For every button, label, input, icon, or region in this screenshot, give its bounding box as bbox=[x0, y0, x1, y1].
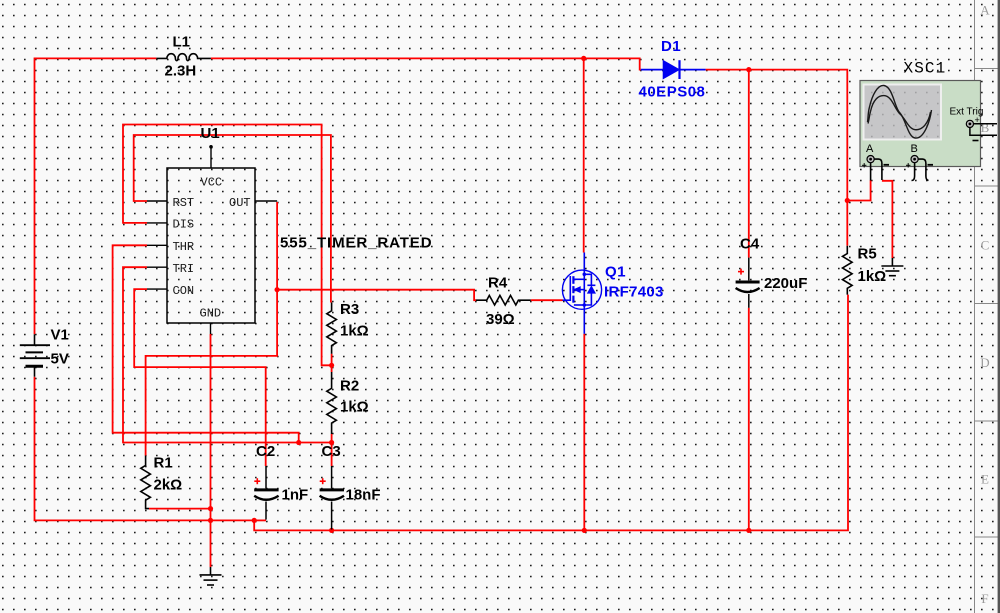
ground (right, scope A-) bbox=[881, 258, 903, 276]
svg-text:B: B bbox=[911, 143, 918, 155]
junction R3/R2 (DIS) bbox=[329, 363, 334, 368]
junction C4 top / output rail bbox=[746, 67, 751, 72]
svg-text:220uF: 220uF bbox=[764, 275, 807, 292]
wire R4 right to Q1 gate bbox=[531, 299, 563, 301]
pin THR stub bbox=[147, 244, 167, 246]
svg-text:D: D bbox=[980, 355, 989, 370]
svg-text:R1: R1 bbox=[154, 455, 173, 472]
svg-text:2kΩ: 2kΩ bbox=[154, 477, 183, 494]
Q1 body diode branch bbox=[584, 274, 591, 285]
polarity + (C2) bbox=[254, 478, 260, 484]
svg-text:DIS: DIS bbox=[173, 218, 195, 232]
svg-text:R4: R4 bbox=[488, 275, 508, 292]
pin GND stub bbox=[210, 323, 212, 334]
svg-text:D1: D1 bbox=[661, 38, 681, 55]
scope waveform bbox=[868, 85, 932, 138]
wire battery minus down to ground rail bbox=[35, 377, 255, 521]
diode D1 bbox=[641, 60, 706, 79]
junction Q1 drain / top rail bbox=[581, 56, 586, 61]
junction Q1 source / ground rail bbox=[582, 528, 587, 533]
wire C2 bottom jog bbox=[254, 519, 266, 521]
wire Q1 source to ground rail bbox=[583, 334, 585, 531]
Q1 body circle bbox=[562, 270, 601, 309]
svg-text:R5: R5 bbox=[858, 246, 877, 263]
terminal B plus mark bbox=[906, 163, 910, 167]
svg-text:A: A bbox=[980, 3, 990, 18]
scope lead B- hook bbox=[918, 159, 928, 180]
svg-text:F: F bbox=[981, 591, 988, 606]
inductor L1 bbox=[156, 54, 211, 61]
svg-text:L1: L1 bbox=[173, 34, 191, 51]
wire output node to scope channel A+ bbox=[847, 180, 870, 200]
svg-text:1kΩ: 1kΩ bbox=[858, 268, 887, 285]
Ext Trig terminal bbox=[966, 120, 973, 127]
svg-text:B: B bbox=[981, 120, 990, 135]
wire 555 GND pin down to ground symbol, R1 junction bbox=[210, 334, 212, 567]
junction scope A+ tap bbox=[845, 198, 850, 203]
wire R3 bottom red to junction bbox=[331, 354, 333, 366]
junction OUT node bbox=[275, 287, 280, 292]
resistor R1 bbox=[141, 456, 151, 509]
wire CON left loop to C2 top bbox=[134, 289, 266, 466]
capacitor C3 bbox=[320, 466, 344, 530]
wire R2 top red from junction bbox=[331, 365, 333, 372]
svg-text:IRF7403: IRF7403 bbox=[604, 284, 664, 301]
svg-text:C3: C3 bbox=[322, 443, 341, 460]
junction 555 GND / ground rail bbox=[208, 518, 213, 523]
terminal A plus mark bbox=[862, 163, 866, 167]
terminal B minus mark bbox=[928, 164, 934, 166]
wire C3 top red bbox=[331, 443, 333, 467]
svg-text:GND: GND bbox=[200, 307, 222, 321]
svg-text:OUT: OUT bbox=[229, 196, 251, 210]
svg-text:U1: U1 bbox=[201, 125, 220, 142]
junction R1 bottom / 555 GND bbox=[208, 506, 213, 511]
wire D1 cathode to output node, to C4 and R5 bbox=[706, 70, 848, 246]
pin VCC stub bbox=[210, 147, 212, 168]
svg-text:THR: THR bbox=[173, 240, 195, 254]
terminal A bbox=[867, 156, 874, 163]
junction C4 bottom / ground rail bbox=[746, 528, 751, 533]
pin RST stub bbox=[147, 200, 167, 202]
svg-text:1kΩ: 1kΩ bbox=[340, 323, 369, 340]
wire OUT node down and left to R1 top bbox=[146, 290, 278, 456]
svg-text:1nF: 1nF bbox=[282, 487, 309, 504]
svg-text:40EPS08: 40EPS08 bbox=[639, 84, 706, 101]
svg-text:C: C bbox=[981, 237, 990, 252]
svg-text:Q1: Q1 bbox=[605, 264, 626, 281]
svg-text:A: A bbox=[866, 143, 874, 155]
Q1 internal connection dots bbox=[583, 273, 587, 277]
wire top rail left (V1+ to L1) bbox=[35, 58, 157, 334]
svg-text:5V: 5V bbox=[51, 351, 69, 368]
pin TRI stub bbox=[147, 266, 167, 268]
resistor R4 (horizontal) bbox=[476, 295, 531, 305]
sheet border column bbox=[975, 0, 999, 613]
wire RST loop over 555 to R3 top bbox=[134, 135, 331, 303]
pin DIS stub bbox=[147, 222, 167, 224]
svg-text:1kΩ: 1kΩ bbox=[340, 399, 369, 416]
scope lead B+ bbox=[912, 163, 915, 181]
svg-text:TRI: TRI bbox=[173, 262, 195, 276]
resistor R2 bbox=[327, 372, 337, 434]
wire C4 bottom to ground rail bbox=[748, 308, 750, 531]
wire DIS loop over 555 to R3/R2 junction bbox=[123, 125, 332, 366]
svg-text:R2: R2 bbox=[340, 378, 359, 395]
resistor R5 bbox=[843, 246, 853, 295]
wire top rail right of L1 to D1 anode, with junction to Q1 drain bbox=[211, 58, 641, 69]
terminal A minus mark bbox=[884, 164, 890, 166]
polarity + (C4) bbox=[738, 269, 744, 275]
Q1 source connect bbox=[574, 304, 584, 306]
junction C3 / ground rail bbox=[329, 528, 334, 533]
capacitor C4 bbox=[736, 258, 760, 308]
svg-text:C4: C4 bbox=[740, 236, 760, 253]
wire C4 top bbox=[748, 70, 750, 258]
svg-text:VCC: VCC bbox=[201, 176, 223, 190]
svg-text:XSC1: XSC1 bbox=[904, 60, 947, 78]
pin OUT stub bbox=[255, 200, 277, 202]
wire TRI left loop down bbox=[123, 267, 299, 442]
Q1 gate bar bbox=[569, 276, 571, 301]
wire R2 bottom red bbox=[331, 434, 333, 443]
wire Q1 drain vertical bbox=[583, 58, 585, 252]
svg-text:V1: V1 bbox=[51, 327, 69, 344]
junction R2 bottom / C3 top bbox=[329, 440, 334, 445]
svg-text:C2: C2 bbox=[256, 443, 275, 460]
svg-text:555_TIMER_RATED: 555_TIMER_RATED bbox=[280, 235, 432, 252]
scope lead A- hook bbox=[874, 159, 882, 180]
555 pin labels bbox=[173, 176, 251, 321]
Q1 internal vertical bbox=[583, 274, 585, 305]
wire ground rail right section bbox=[254, 295, 848, 531]
battery V1 bbox=[20, 334, 50, 376]
terminal B bbox=[911, 156, 918, 163]
VCC pin top dot bbox=[209, 145, 213, 149]
ground (bottom center) bbox=[200, 567, 222, 585]
svg-text:18nF: 18nF bbox=[346, 487, 381, 504]
pin CON stub bbox=[147, 288, 167, 290]
Q1 drain lead blue bbox=[583, 253, 585, 275]
Q1 body arrow bbox=[574, 289, 584, 291]
svg-text:2.3H: 2.3H bbox=[165, 63, 197, 80]
wire OUT pin down to node, right to R4, down-step bbox=[277, 202, 476, 300]
svg-text:CON: CON bbox=[173, 284, 195, 298]
svg-text:+: + bbox=[975, 115, 980, 125]
wire R1 bottom to GND vertical bbox=[149, 508, 211, 510]
op-amp U1 555 timer box bbox=[147, 147, 277, 334]
svg-text:39Ω: 39Ω bbox=[486, 311, 515, 328]
Q1 source lead blue bbox=[583, 305, 585, 334]
svg-text:RST: RST bbox=[173, 196, 195, 210]
Q1 channel dashes bbox=[572, 276, 574, 284]
capacitor C2 bbox=[254, 466, 278, 520]
scope lead A+ bbox=[870, 163, 872, 181]
oscilloscope XSC1 bbox=[860, 81, 997, 181]
svg-text:R3: R3 bbox=[340, 301, 359, 318]
wire THR/TRI node to R2 bottom and C3 top bbox=[299, 442, 332, 444]
junction THR/TRI bbox=[296, 440, 301, 445]
wire scope A- to ground symbol right bbox=[882, 181, 893, 258]
polarity + (C3) bbox=[320, 478, 326, 484]
svg-text:E: E bbox=[981, 472, 989, 487]
transistor Q1 (MOSFET) bbox=[562, 253, 601, 334]
resistor R3 bbox=[327, 303, 337, 354]
Q1 drain connect bbox=[574, 278, 584, 280]
junction C2 / ground rail bbox=[252, 518, 257, 523]
wire THR left loop down to step bbox=[113, 245, 299, 442]
Q1 gate lead blue bbox=[563, 299, 571, 301]
